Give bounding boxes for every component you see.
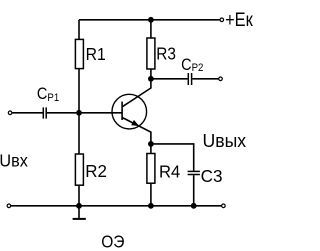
junction: supply rail / R3 [148,17,154,23]
junction: ground rail / R4 [148,203,154,209]
svg-text:Uвых: Uвых [203,131,247,151]
wire: emitter node to C3 branch [151,144,194,171]
ground symbol [73,206,86,219]
junction: base node [76,110,82,116]
resistor R1 [75,39,83,68]
svg-text:R2: R2 [85,161,107,181]
wire: bottom ground rail [11,205,221,207]
wire: base node to R2 [78,113,80,154]
terminal: input (left, signal) [8,111,12,115]
junction: collector node [148,76,154,82]
resistor R4 [147,154,155,184]
svg-text:R3: R3 [156,45,176,64]
junction: ground rail / C3 [191,203,197,209]
wire: emitter node to R4 [150,144,152,154]
wire: Cp2 to output terminal [192,78,218,80]
wire: R2 bottom lead to ground rail [78,185,80,206]
svg-text:C3: C3 [201,166,223,187]
wire: input terminal to Cp1 [12,112,42,114]
resistor R3 [147,38,155,69]
wire: R1 top lead [78,20,80,40]
capacitor Cp2 [188,73,191,85]
terminal: input common (bottom left) [7,204,11,208]
terminal: output common (bottom right) [222,204,226,208]
wire: R3 top lead [150,20,152,38]
transistor VT (NPN) [112,79,151,144]
junction: emitter node [148,141,154,147]
resistor R2 [75,154,83,185]
svg-text:R4: R4 [159,162,180,181]
svg-text:Uвх: Uвх [0,151,28,171]
svg-text:ОЭ: ОЭ [101,233,124,251]
wire: top supply rail [79,19,220,21]
capacitor Cp1 [43,107,46,118]
wire: R1 bottom lead to base node [78,69,80,113]
svg-text:+Eк: +Eк [225,9,253,31]
wire: C3 to ground rail [193,175,195,206]
wire: Cp1 to base node [47,112,79,114]
svg-text:R1: R1 [86,44,106,64]
wire: R4 bottom lead to ground rail [150,183,152,206]
junction: ground rail / R2 and ground [76,203,82,209]
capacitor C3 [188,171,200,174]
wire: collector node to Cp2 [151,78,188,80]
wire: base node to transistor base [79,112,122,114]
terminal: output (right, signal) [219,77,223,81]
terminal: +Ек supply [220,18,224,22]
wire: collector node to R3 [150,69,152,79]
